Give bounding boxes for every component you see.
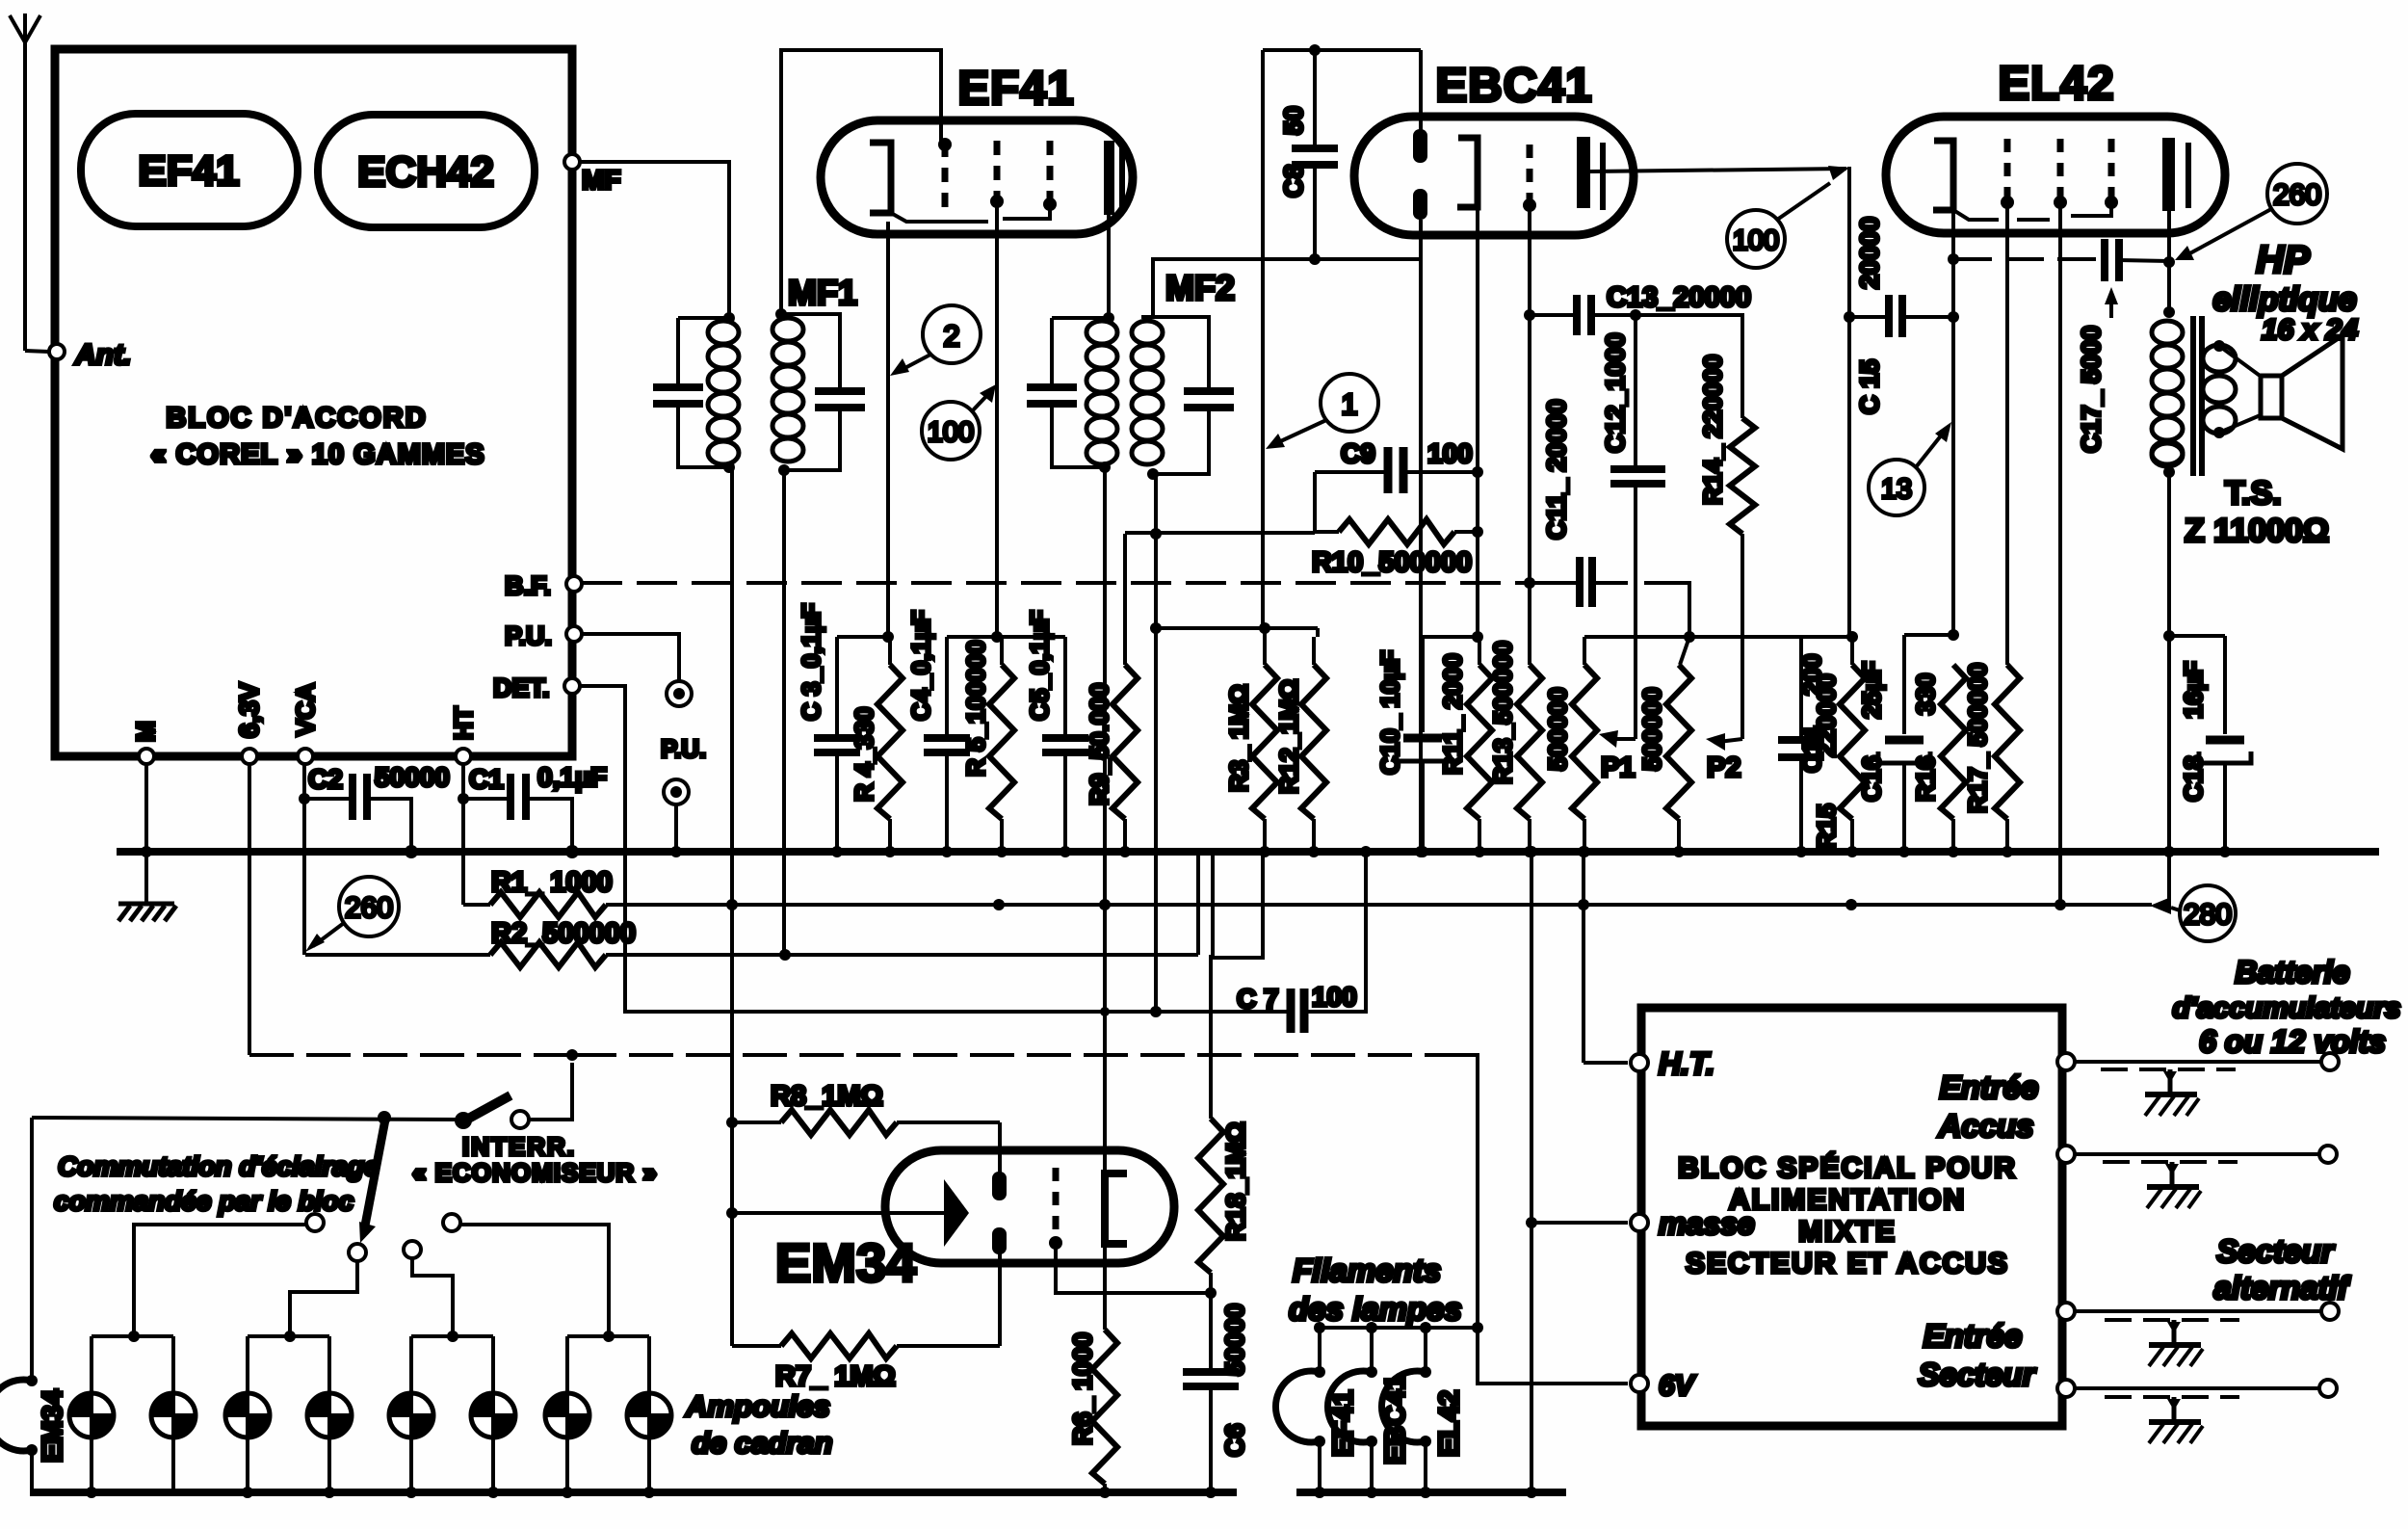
resistor R9 50.000	[1123, 534, 1127, 665]
speaker driver + horn	[2219, 346, 2263, 433]
grid EBC41	[1527, 145, 1533, 207]
svg-text:R8_1MΩ: R8_1MΩ	[771, 1081, 883, 1112]
svg-text:20000: 20000	[1855, 217, 1884, 289]
coil tank C	[1086, 321, 1117, 464]
node dots on R1 line	[726, 899, 738, 910]
main ground bus	[117, 848, 2379, 856]
svg-text:Entrée: Entrée	[1924, 1318, 2023, 1354]
terminal P.U.	[566, 626, 582, 642]
svg-text:100: 100	[1427, 438, 1473, 468]
wire R8/R7 right junction	[998, 1122, 1002, 1346]
svg-text:MF: MF	[582, 165, 620, 195]
svg-text:MIXTE: MIXTE	[1798, 1216, 1897, 1248]
wire C13 to R14	[1636, 315, 1742, 418]
svg-text:500000: 500000	[1637, 687, 1666, 771]
grid g3 EF41	[1047, 141, 1054, 206]
svg-text:R 4_330: R 4_330	[850, 707, 878, 802]
svg-text:alternatif: alternatif	[2213, 1270, 2350, 1305]
capacitor C2	[304, 797, 349, 801]
anode EL42	[2162, 138, 2175, 211]
svg-text:R1_ 1000: R1_ 1000	[491, 867, 613, 898]
grid g1 EF41	[942, 143, 949, 208]
svg-text:R10_500000: R10_500000	[1312, 547, 1472, 578]
terminal masse	[1631, 1214, 1648, 1231]
resistor R15 220000	[1850, 637, 1854, 665]
terminal H.T.	[1631, 1054, 1648, 1071]
wiper P2	[1718, 739, 1742, 742]
cathode EBC41	[1457, 138, 1478, 207]
resistor R17 500000	[1995, 665, 2020, 819]
svg-text:C10_ 10µF: C10_ 10µF	[1375, 650, 1404, 775]
svg-text:R6_ 1000: R6_ 1000	[1068, 1332, 1097, 1445]
wire MF terminal to tank A	[580, 162, 729, 318]
contact pair2	[349, 1244, 366, 1261]
link line g3/R12	[1156, 626, 1318, 630]
svg-text:Z 11000Ω: Z 11000Ω	[2185, 513, 2329, 549]
wire MF1 top to EF41 grid	[781, 50, 941, 314]
grid g1 EL42	[2004, 139, 2011, 204]
envelope EL42	[1886, 117, 2225, 233]
anode EF41	[1104, 141, 1114, 215]
svg-text:C 3_0,1µF: C 3_0,1µF	[797, 603, 825, 721]
tank C loop	[1052, 318, 1109, 467]
envelope chord EBC41	[1600, 143, 1606, 210]
feed line P1/P2 tops to C14/R15	[1689, 635, 1852, 639]
svg-text:HT: HT	[449, 706, 478, 740]
contact pair3	[404, 1241, 421, 1258]
svg-text:330: 330	[1911, 673, 1940, 715]
dial lamps	[69, 1393, 114, 1437]
antenna	[10, 13, 40, 351]
wire H.T.	[1584, 1061, 1628, 1065]
circle tag 260 lower-left	[339, 877, 399, 936]
svg-text:elliptique: elliptique	[2212, 281, 2356, 318]
svg-text:INTERR.: INTERR.	[462, 1132, 576, 1161]
svg-text:P1: P1	[1601, 752, 1635, 783]
svg-text:ALIMENTATION: ALIMENTATION	[1729, 1184, 1966, 1216]
coil tank A	[708, 321, 739, 464]
tank A loop	[678, 318, 729, 467]
svg-text:EM34: EM34	[38, 1389, 68, 1463]
svg-text:DET.: DET.	[493, 673, 550, 702]
wire HT down to R1 line	[461, 764, 465, 905]
svg-text:16µF: 16µF	[2179, 661, 2208, 719]
svg-text:Accus: Accus	[1937, 1108, 2033, 1144]
deflectors EM34	[992, 1172, 1007, 1200]
anode EBC41	[1577, 137, 1590, 208]
resistor R6 1000	[1103, 1244, 1107, 1330]
svg-text:VCA: VCA	[291, 683, 320, 736]
arrow tag2 to cathode wire	[898, 355, 930, 372]
svg-text:500000: 500000	[1543, 687, 1572, 771]
grid g3 EL42	[2108, 139, 2115, 204]
wire B+ vertical to C14/R15 bracket	[1801, 635, 1852, 639]
capacitor C18 (electrolytic)	[2169, 634, 2225, 638]
node tank A top	[723, 312, 735, 324]
svg-text:6,3V: 6,3V	[234, 682, 264, 738]
svg-text:100: 100	[1733, 225, 1779, 256]
capacitor C3	[835, 637, 839, 737]
lamp feed line	[32, 1118, 458, 1120]
anode wire EBC41 to the right	[1590, 169, 1846, 171]
svg-text:SECTEUR ET ACCUS: SECTEUR ET ACCUS	[1686, 1248, 2009, 1279]
lamp bottom leads	[92, 1437, 649, 1492]
svg-text:100: 100	[928, 417, 974, 448]
ground symbol	[144, 852, 148, 902]
node tank C bottom	[1099, 461, 1111, 473]
wire EM34 target	[732, 1211, 944, 1215]
masse vertical	[1530, 852, 1533, 1492]
svg-text:R14_ 220000: R14_ 220000	[1698, 355, 1727, 505]
bloc d'accord box	[55, 49, 572, 756]
pin wire cathode EF41 down	[886, 222, 890, 637]
svg-text:C 7: C 7	[1237, 984, 1279, 1014]
terminal DET.	[564, 678, 580, 694]
bottom bus right (filaments)	[1296, 1489, 1566, 1496]
wiper P1	[1610, 737, 1636, 741]
svg-text:C4_0,1µF: C4_0,1µF	[906, 610, 935, 721]
svg-text:masse: masse	[1659, 1206, 1755, 1241]
svg-text:des lampes: des lampes	[1289, 1291, 1462, 1327]
svg-text:50: 50	[1279, 106, 1308, 135]
arrow 13 to cathode wire	[1916, 430, 1946, 467]
svg-text:P.U.: P.U.	[661, 734, 706, 763]
svg-text:R9_50.000: R9_50.000	[1085, 683, 1113, 805]
svg-text:MF2: MF2	[1165, 268, 1235, 307]
tone line with C17	[1953, 257, 2100, 261]
T.S. primary coil	[2152, 321, 2183, 464]
pin wire anode EF41 down to tank C	[1107, 215, 1111, 318]
circle tag 260 top	[2267, 164, 2327, 224]
svg-text:280: 280	[2184, 899, 2232, 931]
EM34 filament branch	[30, 1118, 34, 1381]
capacitor C5	[1063, 637, 1067, 737]
arrowhead on junction 100	[1828, 166, 1849, 180]
svg-text:0,1µF: 0,1µF	[537, 762, 607, 792]
arrow C17 label	[2109, 294, 2113, 318]
svg-text:6 ou 12 volts: 6 ou 12 volts	[2199, 1024, 2386, 1059]
contact pair4	[443, 1214, 460, 1231]
pin wire grid EBC41 down	[1528, 207, 1531, 665]
svg-text:MF1: MF1	[788, 273, 857, 312]
H.T. vertical	[1582, 852, 1585, 1063]
svg-text:R18_1MΩ: R18_1MΩ	[1221, 1121, 1250, 1241]
T.S. secondary coil	[2203, 345, 2236, 434]
6,3V distribution line	[248, 764, 251, 1055]
pin wire g2 EF41 down	[995, 203, 999, 637]
diode top line	[1263, 48, 1421, 52]
resistor R12 1M	[1312, 637, 1316, 665]
svg-text:6V: 6V	[1659, 1370, 1697, 1402]
circle tag 280	[2180, 885, 2236, 941]
cathode EL42	[1933, 141, 1953, 210]
svg-text:C9: C9	[1341, 438, 1375, 468]
small u-link under bus	[1213, 854, 1263, 958]
svg-text:Batterie: Batterie	[2235, 955, 2349, 989]
wire 6V feed	[1478, 1328, 1628, 1384]
svg-text:C11_ 20000: C11_ 20000	[1542, 399, 1571, 540]
svg-text:R2_500000: R2_500000	[491, 918, 636, 949]
node MF1 top	[775, 308, 787, 320]
tube label oval ECH42	[318, 115, 535, 227]
arrow 260 to VCA wire	[313, 923, 344, 946]
svg-text:220000: 220000	[1812, 673, 1841, 757]
capacitor C11 in B.F. line	[1531, 581, 1576, 585]
filament top bus	[1320, 1326, 1478, 1330]
DET wire down and detector line	[580, 686, 1287, 1012]
circle tag 100 left	[922, 402, 980, 460]
coil MF1	[772, 318, 803, 461]
pin wire g2 EL42 down to 280 line	[2058, 204, 2062, 905]
svg-text:C5_0,1µF: C5_0,1µF	[1025, 610, 1054, 721]
svg-text:R16: R16	[1911, 755, 1940, 802]
svg-text:R13_500000: R13_500000	[1488, 641, 1517, 784]
circle tag 13	[1869, 460, 1924, 515]
svg-text:R11_ 2000: R11_ 2000	[1438, 653, 1467, 775]
pin wire anode EL42 down	[2167, 211, 2171, 852]
capacitor C16 (electrolytic)	[1904, 633, 1953, 637]
battery output 1	[2057, 1053, 2075, 1070]
svg-text:T.S.: T.S.	[2225, 475, 2282, 512]
svg-text:C12_1000: C12_1000	[1601, 332, 1630, 453]
mains output 4	[2057, 1380, 2075, 1397]
potentiometer P1	[1584, 635, 1689, 639]
svg-text:R17_ 500000: R17_ 500000	[1963, 663, 1992, 813]
svg-text:ECH42: ECH42	[357, 148, 494, 196]
svg-text:R15: R15	[1812, 804, 1841, 850]
svg-text:EL42: EL42	[1998, 58, 2114, 110]
long wire tank A down to EM34 resistors	[730, 467, 734, 1346]
resistor R10 500000	[1315, 472, 1339, 533]
cathode EF41	[870, 143, 891, 213]
envelope chord EF41	[1119, 145, 1125, 210]
lamp pair brackets	[92, 1336, 173, 1393]
bloc special box	[1641, 1008, 2062, 1426]
capacitor C1	[463, 797, 507, 801]
arrow tag1 to diode wire	[1274, 420, 1326, 444]
svg-text:« COREL » 10 GAMMES: « COREL » 10 GAMMES	[150, 439, 484, 470]
jack P.U. top	[667, 681, 692, 706]
node tank A bottom	[723, 461, 735, 473]
svg-text:BLOC SPÉCIAL POUR: BLOC SPÉCIAL POUR	[1678, 1151, 2017, 1184]
svg-text:C1: C1	[469, 764, 504, 794]
capacitor tank A	[653, 383, 703, 391]
svg-text:EL42: EL42	[1434, 1390, 1465, 1457]
svg-text:C18: C18	[2179, 755, 2208, 802]
potentiometer P2	[1680, 637, 1689, 665]
T.S. core	[2190, 316, 2196, 476]
resistor R3 1M	[1263, 628, 1267, 665]
svg-text:B.F.: B.F.	[505, 571, 551, 600]
wire MF2 top to diode line	[1153, 259, 1421, 317]
MF2 loop	[1141, 317, 1209, 474]
svg-text:Filaments: Filaments	[1293, 1252, 1441, 1288]
capacitor C17	[2101, 239, 2108, 281]
svg-text:commandée par le bloc: commandée par le bloc	[54, 1186, 354, 1216]
terminal VCA	[298, 749, 313, 764]
svg-text:C6: C6	[1220, 1423, 1249, 1457]
capacitor C4	[945, 637, 949, 737]
capacitor C7	[1287, 989, 1296, 1033]
MF1 loop	[781, 314, 840, 470]
wire R9 tap / R10 return line	[1125, 531, 1315, 535]
envelope EBC41	[1354, 117, 1634, 235]
svg-text:C16: C16	[1857, 755, 1886, 802]
resistor R16 330	[1941, 665, 1966, 819]
capacitor C12	[1634, 315, 1637, 468]
wire grid EM34 to R18 bottom	[1056, 1245, 1211, 1293]
capacitor C6	[1209, 1293, 1213, 1371]
capacitor C15	[1849, 315, 1886, 319]
filament EF41	[1318, 1328, 1322, 1372]
terminal B.F.	[566, 576, 582, 592]
capacitor tank C	[1027, 383, 1077, 391]
svg-text:C2: C2	[308, 764, 343, 794]
wire masse	[1531, 1221, 1628, 1225]
grid EM34	[1053, 1168, 1060, 1245]
arrow tag100 to g2 wire	[972, 392, 990, 411]
node MF1 bottom	[778, 464, 790, 476]
svg-text:EBC41: EBC41	[1436, 60, 1593, 112]
svg-text:2: 2	[943, 319, 959, 353]
terminal MF	[564, 154, 580, 170]
svg-text:de cadran: de cadran	[692, 1426, 832, 1460]
svg-text:EF41: EF41	[138, 147, 239, 195]
arrow 260 to anode junction	[2186, 209, 2271, 255]
envelope chord EL42	[2186, 143, 2191, 208]
battery output 2	[2057, 1146, 2075, 1163]
svg-text:C13_20000: C13_20000	[1607, 282, 1751, 313]
capacitor C8	[1313, 50, 1317, 147]
arrowhead into 280	[2150, 897, 2171, 914]
B.F. line	[582, 581, 1531, 585]
jack P.U. bottom	[664, 779, 689, 804]
envelope EM34	[885, 1150, 1174, 1263]
svg-text:R 5_100000: R 5_100000	[961, 640, 990, 777]
switch commutation lever	[365, 1120, 385, 1226]
svg-text:EF41: EF41	[957, 63, 1074, 115]
svg-text:Ant.: Ant.	[74, 339, 131, 371]
svg-text:1: 1	[1341, 387, 1357, 421]
svg-text:P.U.: P.U.	[505, 621, 552, 650]
wire M terminal to bus	[144, 764, 148, 852]
resistor R13 500000	[1517, 665, 1542, 819]
svg-text:C 15: C 15	[1855, 359, 1884, 414]
svg-text:d'accumulateurs: d'accumulateurs	[2172, 992, 2400, 1024]
terminal HT	[456, 749, 471, 764]
svg-text:R12_1MΩ: R12_1MΩ	[1274, 679, 1303, 794]
wire R3 vertical from diode line	[1261, 50, 1265, 628]
pin wire cathode EBC41 down	[1476, 207, 1479, 637]
svg-text:Commutation d'éclairage: Commutation d'éclairage	[58, 1151, 379, 1181]
envelope EF41	[821, 120, 1133, 234]
resistor R14 220000	[1730, 418, 1755, 534]
resistor R18 1M	[1209, 955, 1213, 1119]
circle tag 1	[1321, 374, 1378, 432]
svg-text:Secteur: Secteur	[1918, 1357, 2036, 1392]
svg-text:H.T.: H.T.	[1659, 1046, 1714, 1081]
anode EM34	[1105, 1173, 1127, 1244]
wire tank C bottom down to R1 line, then to EM34 anode	[1103, 467, 1107, 1173]
target EM34	[944, 1179, 969, 1247]
diode plate 1 EBC41	[1419, 50, 1423, 131]
coil MF2	[1132, 321, 1163, 464]
capacitor MF2	[1184, 387, 1234, 395]
svg-text:Secteur: Secteur	[2216, 1233, 2335, 1269]
svg-text:P2: P2	[1707, 752, 1741, 783]
svg-text:C8: C8	[1279, 164, 1308, 198]
filament EL42	[1424, 1328, 1427, 1372]
wire MF2 bottom down to C7/DET line	[1154, 474, 1158, 1012]
svg-text:HP: HP	[2256, 239, 2310, 281]
wire antenna to Ant terminal	[25, 351, 49, 352]
svg-text:50000: 50000	[1220, 1304, 1249, 1376]
svg-text:50000: 50000	[375, 762, 450, 792]
svg-text:25µF: 25µF	[1857, 661, 1886, 719]
diode plate 2 EBC41	[1413, 189, 1427, 220]
terminal 6,3V	[242, 749, 257, 764]
pin wire g1 EL42	[2005, 204, 2009, 665]
contact pair1	[306, 1214, 324, 1231]
bracket C3/R4 to cathode	[837, 635, 890, 639]
svg-text:BLOC D'ACCORD: BLOC D'ACCORD	[166, 403, 427, 434]
svg-text:C17_ 5000: C17_ 5000	[2077, 326, 2106, 453]
filament EBC41	[1370, 1328, 1374, 1372]
terminal M	[139, 749, 154, 764]
resistor R5 100000	[1000, 637, 1004, 665]
grid g2 EL42	[2057, 139, 2064, 204]
capacitor MF1	[815, 387, 865, 395]
wire P.U. to jack	[582, 634, 679, 682]
capacitor C14	[1799, 637, 1803, 739]
wire MF1 bottom down to R2 line	[782, 470, 786, 955]
wire 100-junction down	[1847, 167, 1851, 637]
svg-text:13: 13	[1881, 474, 1912, 505]
svg-text:100: 100	[1312, 982, 1357, 1012]
switch interrupteur economiseur	[455, 1112, 472, 1129]
bottom ground bus left	[30, 1489, 1237, 1496]
resistor R4 330	[888, 637, 892, 665]
node tank C top	[1103, 312, 1114, 324]
resistor R11 2000	[1478, 637, 1481, 665]
circle tag 2	[923, 305, 981, 363]
svg-text:Ampoules: Ampoules	[685, 1389, 830, 1423]
svg-text:R7_ 1MΩ: R7_ 1MΩ	[775, 1361, 896, 1392]
pin wire cathode EL42	[1951, 210, 1955, 635]
grid g2 EF41	[994, 141, 1001, 203]
terminal 6V	[1631, 1375, 1648, 1392]
svg-text:Entrée: Entrée	[1940, 1069, 2039, 1105]
svg-text:260: 260	[345, 892, 393, 924]
capacitor C10 (electrolytic)	[1423, 637, 1478, 732]
svg-text:R3_ 1MΩ: R3_ 1MΩ	[1224, 684, 1253, 792]
svg-text:M: M	[131, 721, 160, 742]
mains output 3	[2057, 1303, 2075, 1320]
tube label oval EF41	[81, 114, 298, 226]
svg-text:16 x 24: 16 x 24	[2262, 314, 2358, 346]
wire VCA down	[302, 764, 306, 955]
svg-text:260: 260	[2273, 179, 2321, 211]
svg-text:« ECONOMISEUR »: « ECONOMISEUR »	[412, 1158, 658, 1187]
terminal Ant	[49, 344, 65, 359]
node MF2 bottom	[1147, 468, 1159, 480]
circle tag 100 right	[1727, 210, 1785, 268]
bracket C4/R5/C5 to g2	[947, 635, 1065, 639]
